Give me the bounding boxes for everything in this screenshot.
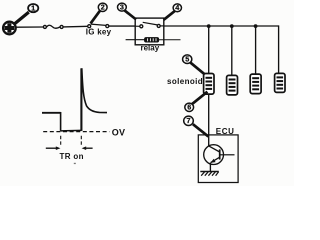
waveform falling edge [60,112,62,131]
relay box [135,18,164,45]
waveform decay tail [82,68,107,112]
ground [200,172,219,176]
wire IG key to relay [109,25,135,27]
callout 4 pointer [164,11,175,20]
junction dot 2 [230,24,234,28]
bus wire relay to right [164,25,279,27]
svg-text:2: 2 [101,3,105,12]
arrow right [82,146,93,150]
transistor Q1 [204,145,235,165]
callout 7 pointer [193,124,209,136]
waveform low level [61,129,82,132]
scan speck [74,163,76,164]
callout 5 [183,55,192,64]
wire drop to injector 1 [208,26,210,74]
callout 7 [184,116,194,125]
fuse [43,25,63,28]
interval tick left [60,136,62,147]
wire drop to injector 3 [255,26,257,74]
callout 3 pointer [124,10,136,19]
callout 2 [98,3,107,12]
svg-text:solenoid: solenoid [167,77,203,86]
svg-text:1: 1 [31,4,35,13]
svg-text:OV: OV [112,128,126,138]
relay coil wire right [159,39,181,41]
callout 6 [185,103,194,112]
svg-text:IG key: IG key [86,27,112,36]
battery B+ [3,22,16,35]
interval tick right [80,136,82,147]
wire drop to injector 2 [231,26,233,76]
relay coil [144,37,158,42]
junction dot 1 [207,24,211,28]
svg-text:relay: relay [140,44,159,53]
wire fuse to IG key [63,25,88,28]
callout 5 pointer [190,63,204,74]
waveform spike [80,68,82,131]
solenoid injector 4 [275,73,285,92]
switch IG key [88,24,109,28]
svg-text:4: 4 [175,3,179,12]
solenoid injector 2 [227,75,238,95]
callout 2 pointer [91,11,100,24]
solenoid injector 1 [204,74,214,95]
junction dot 3 [254,24,258,28]
callout 1 [28,4,38,13]
emitter wire to ground [209,163,211,172]
callout 3 [118,3,127,12]
svg-text:7: 7 [187,116,191,125]
svg-text:TR on: TR on [60,152,84,161]
wire injector 1 to ECU [208,94,210,146]
wire battery to fuse [16,26,43,28]
wire drop to injector 4 [278,25,280,73]
ECU box [198,135,238,183]
svg-text:3: 3 [120,3,124,12]
zero volt dashed line [43,131,109,133]
callout 1 pointer [14,12,29,24]
relay coil wire left [126,39,145,41]
solenoid injector 3 [250,74,261,94]
callout 6 pointer [192,92,208,105]
callout 4 [173,3,181,12]
svg-text:6: 6 [187,103,191,112]
waveform high level [42,112,61,114]
svg-text:5: 5 [185,55,189,64]
relay switch contacts [135,22,164,28]
arrow left [46,146,61,150]
